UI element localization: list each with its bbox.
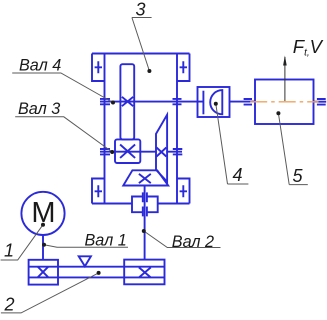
gearbox housing right wall [176, 54, 178, 204]
bearing shaft3 left [100, 149, 110, 154]
leader dot Вал 2 [142, 229, 146, 233]
leader label 2 [1, 273, 99, 313]
leader label 4 [216, 104, 249, 184]
svg-text:5: 5 [293, 166, 304, 186]
coupling half right on shaft 2 [147, 192, 158, 216]
svg-text:Ft,V: Ft,V [293, 36, 324, 59]
leader dot Вал 3 [110, 150, 114, 154]
svg-text:Вал 2: Вал 2 [172, 233, 214, 251]
coupling 4 half-disc [210, 90, 222, 114]
load drum box 5 [255, 80, 314, 125]
bearing shaft3 right [173, 149, 183, 154]
bearing box top-right [177, 54, 190, 82]
coupling 4 left bar [202, 91, 204, 115]
leader dot Вал 4 [111, 101, 115, 105]
motor shaft (Вал 1) vertical line [42, 235, 44, 260]
belt bottom line [29, 276, 165, 278]
leader dot 3 [147, 69, 151, 73]
bearing box bottom-right [177, 179, 190, 204]
leader label Вал 2 [144, 231, 221, 248]
gear Z4 on shaft 4 [120, 64, 134, 139]
svg-text:4: 4 [233, 165, 243, 185]
gearbox housing bottom edge left part [92, 203, 132, 205]
gearbox housing bottom edge right part [158, 203, 190, 205]
pulley left [29, 260, 58, 285]
shaft 2 (Вал 2) vertical line [144, 186, 146, 260]
leader label 5 [278, 113, 307, 184]
belt top line [29, 266, 165, 268]
gearbox housing left wall [104, 54, 106, 204]
bearing box top-left [92, 54, 105, 82]
leader dot 2 [97, 271, 101, 275]
coupling half left on shaft 2 [132, 192, 143, 216]
svg-text:3: 3 [136, 0, 146, 20]
load right shaft stub [314, 101, 327, 103]
svg-text:Вал 3: Вал 3 [18, 100, 60, 118]
coupling 4 box [198, 87, 230, 117]
leader label Вал 3 [15, 117, 112, 152]
motor circle [21, 192, 64, 235]
pulley left X mark [38, 267, 49, 278]
svg-text:M: M [31, 197, 55, 229]
leader dot 1 [41, 223, 45, 227]
pulley right X mark [139, 267, 151, 277]
bevel gear on shaft 3 [156, 115, 167, 182]
leader label 1 [1, 225, 43, 260]
leader label Вал 4 [12, 73, 113, 103]
pulley right [124, 260, 164, 285]
svg-text:1: 1 [4, 240, 14, 260]
svg-text:2: 2 [4, 295, 15, 315]
leader dot 5 [276, 111, 280, 115]
gear Z4 X mark [122, 97, 133, 106]
gearbox housing top edge [92, 53, 190, 55]
shaft 4 (Вал 4) horizontal line [100, 101, 255, 103]
gear Z3 on shaft 3 [115, 139, 140, 163]
belt tension idler triangle [79, 256, 91, 266]
bearing box bottom-right cross [180, 185, 187, 197]
leader dot 4 [214, 102, 218, 106]
gear Z3 X mark [120, 145, 135, 158]
bearing shaft4 left [100, 99, 110, 104]
force arrow F,V [284, 57, 286, 101]
leader label Вал 1 [44, 245, 128, 248]
leader dot Вал 1 [42, 243, 46, 247]
bearing load right [317, 99, 326, 105]
leader label 3 [132, 18, 152, 72]
bevel gear on shaft 2 [123, 170, 168, 185]
bearing shaft4 right [173, 99, 182, 104]
shaft 3 (Вал 3) horizontal line [100, 151, 182, 153]
bearing load left [244, 99, 252, 105]
load axis centerline [250, 101, 318, 103]
bevel gear shaft3 X mark [157, 148, 167, 157]
bearing box bottom-left [92, 179, 105, 204]
svg-text:Вал 4: Вал 4 [19, 57, 61, 75]
bevel gear shaft2 X mark [139, 174, 151, 183]
bearing box top-left cross [95, 61, 102, 73]
svg-text:Вал 1: Вал 1 [85, 232, 127, 250]
bearing box bottom-left cross [95, 185, 102, 197]
bearing box top-right cross [180, 61, 187, 73]
